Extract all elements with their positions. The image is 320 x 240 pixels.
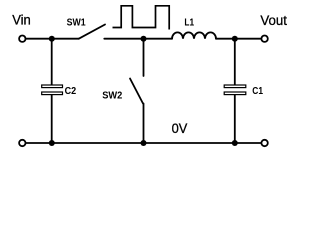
node junction bottom left: [49, 140, 55, 146]
wire left branch lower (C2 to bottom rail): [51, 95, 53, 143]
capacitor C2 plates: [42, 85, 63, 95]
capacitor C1 plates: [224, 85, 246, 95]
wire top rail middle (SW1 to L1): [104, 38, 172, 40]
svg-text:Vout: Vout: [260, 13, 287, 29]
terminal Vout: [261, 36, 267, 42]
wire right branch upper (node to C1): [234, 39, 236, 85]
node junction bottom middle: [141, 140, 147, 146]
svg-text:0V: 0V: [172, 121, 188, 137]
switch SW2 blade: [130, 79, 143, 104]
node junction top right: [232, 36, 238, 42]
terminal Vin: [19, 36, 25, 42]
svg-text:C1: C1: [252, 86, 263, 97]
svg-text:SW1: SW1: [67, 18, 86, 29]
wire middle branch upper (node to SW2): [143, 39, 145, 76]
wire middle branch lower (SW2 to bottom rail): [143, 104, 145, 144]
svg-text:Vin: Vin: [12, 13, 31, 29]
switch SW1 blade: [79, 25, 105, 39]
wire right branch lower (C1 to bottom rail): [234, 95, 236, 143]
waveform pulse train: [113, 6, 170, 30]
wire top rail right (L1 to Vout terminal): [216, 38, 261, 40]
node junction top middle: [141, 36, 147, 42]
inductor L1: [172, 32, 216, 38]
svg-text:L1: L1: [184, 17, 194, 28]
wire top rail left (Vin terminal to SW1): [26, 38, 79, 40]
svg-text:SW2: SW2: [102, 90, 123, 101]
node junction bottom right: [232, 140, 238, 146]
node junction top left: [49, 36, 55, 42]
svg-text:C2: C2: [65, 86, 77, 97]
wire bottom rail (0V): [26, 142, 261, 144]
terminal bottom right: [261, 140, 267, 146]
terminal bottom left: [19, 140, 25, 146]
wire left branch upper (node to C2): [51, 39, 53, 85]
